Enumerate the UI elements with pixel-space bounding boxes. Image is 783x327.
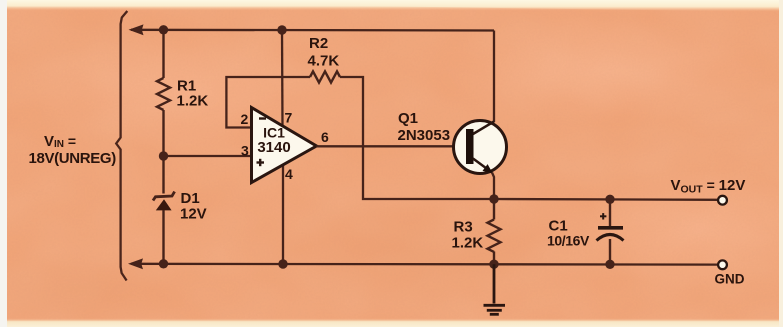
svg-text:GND: GND — [715, 272, 745, 287]
svg-text:3140: 3140 — [257, 139, 290, 156]
junction dot emitter node — [489, 194, 498, 203]
label D1 12V — [180, 190, 207, 223]
svg-text:Q1: Q1 — [398, 110, 418, 127]
transistor Q1 — [454, 121, 507, 174]
svg-text:2: 2 — [241, 111, 249, 127]
wire top rail — [131, 29, 494, 32]
label C1 10/16V — [547, 218, 590, 249]
arrow bottom-left — [128, 258, 143, 269]
svg-text:7: 7 — [285, 110, 293, 126]
svg-text:18V(UNREG): 18V(UNREG) — [29, 150, 117, 167]
junction dot node pin3 — [159, 151, 168, 160]
svg-text:12V: 12V — [180, 206, 207, 223]
junction dot gnd pin4 — [278, 259, 287, 268]
wire VOUT rail — [494, 198, 719, 201]
ground symbol — [484, 264, 506, 314]
wire feedback pin2 to R2 — [226, 77, 310, 128]
resistor R3 — [488, 199, 501, 264]
svg-text:D1: D1 — [181, 190, 200, 207]
resistor R2 — [310, 71, 340, 82]
svg-text:3: 3 — [241, 143, 249, 159]
svg-text:R3: R3 — [454, 219, 473, 236]
capacitor C1 — [597, 199, 624, 264]
junction dot gnd D1 — [159, 259, 168, 268]
junction dot top pin7 — [277, 25, 286, 34]
junction dot gnd R3 — [489, 260, 498, 269]
svg-text:4.7K: 4.7K — [308, 53, 340, 70]
terminal GND — [718, 260, 727, 269]
wire collector to top rail — [493, 31, 495, 123]
diode D1 (zener) — [153, 156, 175, 264]
wire emitter to VOUT node — [492, 173, 494, 200]
wire GND rail — [131, 263, 719, 266]
op-amp IC1 — [252, 108, 317, 183]
label VIN = 18V(UNREG) — [29, 133, 117, 167]
junction dot top R1 — [159, 25, 168, 34]
label R3 1.2K — [452, 219, 484, 252]
svg-text:10/16V: 10/16V — [547, 233, 590, 249]
svg-text:1.2K: 1.2K — [452, 235, 484, 252]
svg-text:1.2K: 1.2K — [177, 93, 209, 110]
junction dot gnd C1 — [605, 260, 614, 269]
wire pin 4 — [282, 165, 284, 264]
brace for VIN — [116, 11, 127, 281]
svg-text:R2: R2 — [309, 35, 328, 52]
label IC1 3140 — [257, 125, 290, 157]
terminal VOUT — [718, 196, 727, 205]
arrow top-left — [129, 24, 144, 35]
wire pin 3 — [164, 155, 253, 157]
wire R2 to VOUT node — [340, 77, 492, 199]
svg-text:2N3053: 2N3053 — [398, 127, 451, 144]
resistor R1 — [157, 30, 170, 156]
junction dot C1 top — [605, 195, 614, 204]
label Q1 2N3053 — [398, 110, 451, 144]
svg-text:6: 6 — [321, 129, 329, 145]
wire pin 6 — [317, 145, 467, 147]
label R1 1.2K — [177, 78, 209, 110]
label R2 4.7K — [308, 35, 340, 70]
svg-text:4: 4 — [285, 166, 293, 182]
wire pin 7 — [281, 30, 284, 126]
